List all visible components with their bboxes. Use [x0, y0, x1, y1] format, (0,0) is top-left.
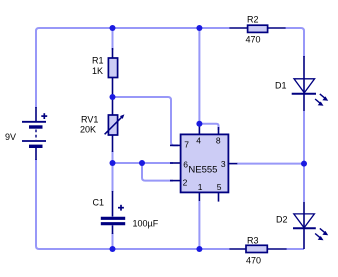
svg-text:RV1: RV1 [81, 115, 98, 125]
svg-text:NE555: NE555 [188, 164, 217, 175]
svg-text:1: 1 [198, 182, 203, 192]
svg-text:3: 3 [221, 159, 226, 169]
svg-text:2: 2 [183, 177, 188, 187]
svg-text:470: 470 [246, 35, 261, 45]
svg-text:20K: 20K [80, 125, 96, 135]
svg-text:470: 470 [246, 256, 261, 266]
svg-text:R2: R2 [247, 15, 259, 25]
svg-text:7: 7 [184, 139, 189, 149]
svg-text:5: 5 [217, 182, 222, 192]
svg-text:C1: C1 [93, 198, 105, 208]
svg-text:9V: 9V [5, 132, 16, 142]
svg-text:R3: R3 [247, 236, 259, 246]
svg-text:8: 8 [216, 136, 221, 146]
svg-text:D2: D2 [276, 214, 288, 224]
svg-text:100µF: 100µF [133, 219, 159, 229]
svg-text:1K: 1K [92, 66, 103, 76]
svg-text:4: 4 [196, 136, 201, 146]
svg-text:D1: D1 [275, 80, 287, 90]
svg-text:R1: R1 [92, 56, 104, 66]
